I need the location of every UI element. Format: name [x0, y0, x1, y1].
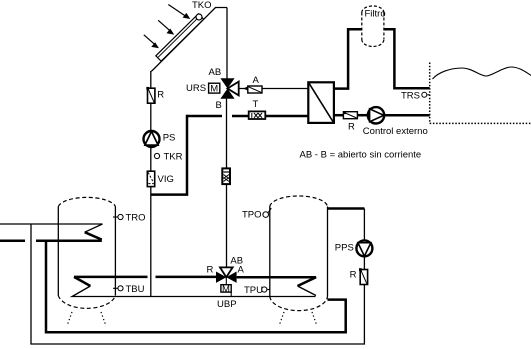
- heat exchanger: [308, 82, 334, 123]
- wire: [150, 103, 152, 131]
- right tank legs: [279, 312, 317, 326]
- svg-text:R: R: [157, 90, 164, 101]
- pipe pool-HX supply thick: [187, 115, 222, 118]
- svg-text:AB - B = abierto sin corriente: AB - B = abierto sin corriente: [300, 150, 422, 161]
- sensor TKR: [154, 153, 159, 158]
- check valve R (PPS): [359, 268, 368, 284]
- upper coil bottom line (boiler return, thick): [85, 232, 102, 239]
- pipe UBP A to right tank coil: [237, 277, 316, 286]
- svg-text:PS: PS: [163, 133, 176, 144]
- valve UBP 3-way: [216, 267, 237, 284]
- wire collector return left vertical top: [150, 71, 152, 88]
- sensor TRO: [113, 213, 146, 224]
- svg-text:Control externo: Control externo: [363, 126, 428, 137]
- sensor TPU: [244, 285, 270, 296]
- svg-text:TRS: TRS: [401, 91, 420, 102]
- wire T to HX: [265, 115, 308, 118]
- svg-text:AB: AB: [209, 67, 222, 78]
- upper coil top line (boiler flow): [0, 224, 103, 232]
- sensor TPO: [242, 208, 271, 220]
- svg-text:M: M: [210, 84, 218, 95]
- solar collector TKO incline frame: [151, 8, 227, 72]
- valve URS 3-way: [220, 78, 238, 98]
- right tank shell: [270, 196, 328, 311]
- left tank shell: [58, 197, 115, 308]
- pipe down at x187: [151, 115, 187, 195]
- pipe filter to pool top: [384, 29, 430, 88]
- wire regulator to UBP: [226, 184, 228, 267]
- left tank legs: [67, 312, 106, 326]
- check valve on A outlet: [243, 86, 262, 93]
- pump PPS: [356, 240, 372, 256]
- svg-text:R: R: [207, 265, 214, 276]
- flow regulator: [222, 168, 230, 184]
- pump PS: [144, 131, 160, 147]
- sun arrow 1: [168, 5, 190, 20]
- svg-text:URS: URS: [186, 83, 206, 94]
- svg-text:A: A: [253, 75, 260, 86]
- svg-text:Filtro: Filtro: [365, 9, 386, 20]
- check valve R (pool): [343, 111, 357, 118]
- pipe HX to pool pump line: [334, 114, 343, 117]
- boiler circuit inner loop thick: [46, 241, 346, 332]
- svg-text:PPS: PPS: [335, 243, 354, 254]
- pool dotted wall horizontal: [430, 122, 531, 124]
- lower coil top line thick: [74, 277, 90, 286]
- solar collector panel: [156, 14, 204, 61]
- pool dotted wall vertical: [429, 63, 431, 124]
- wire URS B down: [226, 99, 228, 169]
- svg-text:M: M: [222, 284, 230, 295]
- svg-text:TPU: TPU: [244, 285, 263, 296]
- svg-text:T: T: [253, 99, 259, 110]
- svg-text:B: B: [216, 100, 222, 111]
- svg-text:UBP: UBP: [217, 299, 237, 310]
- svg-text:TRO: TRO: [126, 213, 146, 224]
- pump Control externo: [368, 107, 384, 123]
- right tank coil return: [298, 286, 317, 296]
- svg-text:TPO: TPO: [242, 210, 262, 221]
- actuator M (URS): [209, 83, 220, 94]
- svg-text:TKR: TKR: [164, 152, 183, 163]
- pipe HX to filter riser: [334, 29, 362, 88]
- sensor TBU: [113, 284, 145, 295]
- wire collector supply down to URS: [226, 8, 228, 79]
- boiler circuit outer loop: [31, 224, 364, 344]
- wire: [150, 147, 152, 171]
- filter cylinder: [362, 6, 384, 47]
- pipe right tank top to PPS branch: [328, 207, 365, 210]
- check valve R (collector): [146, 87, 155, 103]
- wire pump to pool: [384, 114, 430, 117]
- svg-text:VIG: VIG: [158, 174, 174, 185]
- svg-text:TKO: TKO: [192, 0, 212, 11]
- wire M box stem: [230, 292, 232, 296]
- wire down to pump PPS: [363, 209, 365, 241]
- svg-text:R: R: [348, 122, 355, 133]
- svg-text:R: R: [350, 270, 357, 281]
- wire URS A outlet: [239, 88, 308, 90]
- sun arrow 2: [158, 20, 174, 34]
- wire collector return to bottom manifold: [150, 187, 152, 297]
- wire: [363, 256, 365, 269]
- svg-text:TBU: TBU: [126, 284, 145, 295]
- gravity brake VIG: [147, 171, 154, 186]
- lower coil bottom line thin: [72, 286, 315, 297]
- sensor TKO circle: [196, 14, 202, 20]
- svg-text:A: A: [238, 265, 245, 276]
- wire: [357, 114, 367, 117]
- pool water wavy line: [433, 67, 531, 79]
- sun arrow 3: [144, 35, 159, 49]
- sensor T box: [249, 111, 266, 119]
- actuator M (UBP): [221, 284, 231, 295]
